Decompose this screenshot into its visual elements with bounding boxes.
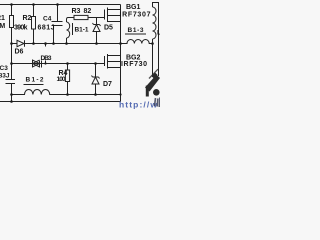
svg-text:D7: D7 (103, 81, 112, 88)
svg-text:B1-2: B1-2 (26, 77, 44, 84)
capacitor C3 (6, 80, 16, 84)
svg-text:L: L (157, 30, 160, 37)
svg-text:R2: R2 (23, 15, 32, 22)
wire B1-1 bottom (66, 38, 68, 44)
svg-text:390k: 390k (14, 25, 28, 32)
svg-text:C4: C4 (43, 16, 52, 23)
diode D6 (17, 40, 25, 46)
core bar B1-1 (72, 23, 74, 35)
zener D5 (93, 18, 101, 27)
svg-text:681J: 681J (38, 25, 55, 32)
svg-text:82: 82 (84, 8, 92, 15)
wire R3 left hook to B1-1 (67, 18, 75, 23)
capacitor C4 (52, 22, 63, 26)
wire D7 bottom (95, 84, 97, 95)
junction dots (10, 3, 154, 103)
winding B1-3 (121, 39, 154, 43)
svg-text:R3: R3 (72, 8, 81, 15)
wire gate line (12, 43, 121, 45)
svg-text:DB3: DB3 (41, 55, 52, 62)
wire D5 bottom (96, 32, 98, 44)
label DB3 (40, 47, 53, 62)
svg-text:B1-1: B1-1 (75, 26, 89, 33)
resistor R2 (32, 17, 36, 30)
resistor R1 (10, 16, 14, 28)
labels (0, 4, 161, 88)
wire R2 vertical (33, 5, 35, 44)
wire bottom rail (0, 101, 121, 103)
wire top-right bridge (153, 3, 159, 77)
wire R4 top (67, 64, 69, 71)
svg-text:BG1: BG1 (126, 4, 141, 11)
svg-text:http://w: http://w (119, 100, 157, 110)
wire top rail (0, 4, 121, 6)
diac DB3 (33, 60, 42, 68)
wire BG2 source (120, 68, 122, 102)
wire right drop (152, 44, 154, 78)
core bar B1-2 (24, 84, 44, 86)
resistor R4 (65, 70, 69, 82)
svg-text:C3: C3 (0, 65, 8, 72)
svg-text:B1-3: B1-3 (128, 27, 144, 34)
svg-text:IRF7307: IRF7307 (120, 11, 151, 18)
wire C4 leads (54, 5, 58, 44)
core bar B1-3 (125, 33, 146, 35)
svg-text:1M: 1M (0, 23, 5, 30)
inductor L right coil (153, 7, 157, 44)
svg-text:R1: R1 (0, 15, 5, 22)
wire R4 bottom (67, 82, 69, 95)
wire diac-to-midpoint vertical (45, 44, 47, 64)
watermark logo (145, 69, 160, 97)
wire BG2 drain (120, 44, 122, 56)
svg-text:D6: D6 (15, 49, 24, 56)
wire diac line (12, 63, 96, 65)
watermark logo tail strokes (155, 98, 160, 108)
wire R3 right (88, 17, 97, 19)
svg-text:IRF730: IRF730 (121, 61, 147, 68)
wire BG1 drain (120, 5, 122, 10)
wire BG1 source (120, 22, 122, 44)
wire left vertical (11, 5, 13, 102)
zener D7 (92, 64, 100, 79)
svg-text:D5: D5 (104, 24, 113, 31)
svg-text:683J: 683J (0, 73, 10, 80)
winding B1-2 (12, 89, 121, 94)
winding B1-1 (67, 22, 70, 38)
resistor R3 (74, 15, 88, 19)
svg-text:100: 100 (57, 76, 66, 83)
mosfet BG2 (96, 54, 121, 69)
mosfet BG1 (97, 8, 121, 23)
